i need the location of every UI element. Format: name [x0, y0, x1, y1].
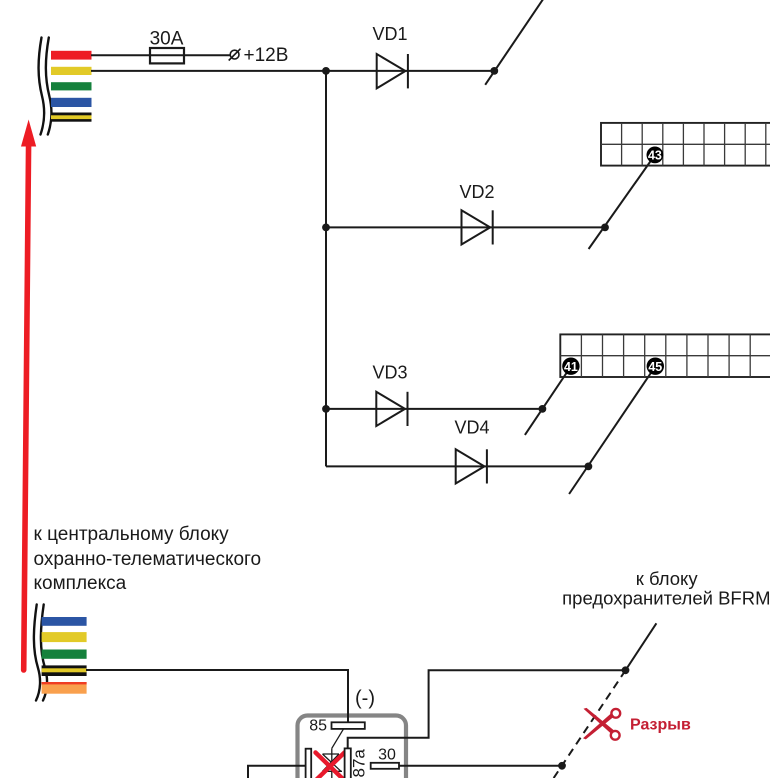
wire yellow feed to VD1 [91, 70, 494, 72]
connector X1 sheath (top harness) [39, 38, 52, 135]
node VD1 out [490, 67, 498, 75]
svg-text:41: 41 [564, 360, 578, 374]
dashed cut wire [553, 670, 626, 778]
wire to fuse [91, 54, 230, 56]
svg-text:VD3: VD3 [372, 363, 407, 383]
pin line to pad 43 [589, 155, 655, 249]
diode VD2 [462, 210, 493, 244]
bus vertical wire [325, 71, 327, 467]
red arrow [21, 120, 36, 671]
junction node bus-VD3 [322, 405, 330, 413]
pad 43 [647, 147, 664, 164]
wire stub black-yellow [51, 113, 92, 122]
svg-text:VD4: VD4 [454, 418, 489, 438]
svg-text:Разрыв: Разрыв [630, 717, 691, 734]
wire stub blue [51, 98, 92, 107]
red cross over coil [316, 753, 345, 778]
wire stub green [51, 82, 92, 90]
svg-text:30А: 30А [150, 29, 184, 50]
junction node VD2 out [601, 224, 609, 232]
svg-text:+12В: +12В [244, 45, 289, 66]
svg-text:к центральному блоку: к центральному блоку [34, 524, 230, 545]
wire VD3 branch [326, 408, 542, 410]
wire stub blue [42, 617, 87, 626]
wire harness to relay pin 85 [86, 670, 348, 723]
wire VD2 branch [326, 226, 605, 228]
junction node VD4 out [585, 463, 593, 471]
svg-text:(-): (-) [355, 688, 375, 710]
svg-text:85: 85 [309, 718, 327, 735]
wire to BFRM [626, 623, 657, 670]
junction node VD3 out [539, 405, 547, 413]
wire stub black-yellow [42, 665, 87, 676]
label to central unit [34, 524, 262, 594]
relay coil lead [323, 729, 344, 778]
wire stub yellow [51, 67, 92, 75]
svg-text:87а: 87а [350, 749, 369, 778]
node BFRM branch [622, 666, 630, 674]
label to BFRM fuse box [562, 568, 770, 609]
relay K1 body [298, 716, 407, 778]
svg-text:30: 30 [378, 747, 396, 764]
scissors cut symbol [583, 708, 614, 740]
wire stub green [42, 650, 87, 659]
connector X2 sheath (bottom harness) [34, 605, 47, 701]
relay pin 85 terminal [332, 722, 365, 729]
relay contact 87a [345, 748, 351, 778]
node bus top [322, 67, 330, 75]
junction node bus-VD2 [322, 224, 330, 232]
svg-text:предохранителей BFRM: предохранителей BFRM [562, 588, 770, 609]
wire 87a to BFRM node [348, 670, 626, 748]
wire stub yellow [42, 632, 87, 642]
svg-text:43: 43 [648, 148, 662, 162]
wire pin 30 to cut node [399, 765, 562, 767]
svg-text:VD1: VD1 [372, 24, 407, 44]
wire into relay contact left [248, 766, 306, 778]
svg-text:45: 45 [648, 360, 662, 374]
pin line to pad 45 [569, 366, 655, 494]
connector grid A [601, 123, 770, 166]
pin line to pad 41 [525, 366, 571, 435]
svg-text:комплекса: комплекса [34, 573, 127, 594]
diode VD1 [377, 54, 408, 88]
diode VD3 [376, 392, 407, 426]
wire stub orange [42, 682, 87, 694]
svg-text:к блоку: к блоку [636, 568, 699, 589]
wire VD4 branch [326, 465, 588, 467]
wire stub red [51, 51, 92, 60]
connector grid B [560, 334, 770, 377]
svg-text:охранно-телематического: охранно-телематического [34, 549, 262, 570]
fuse 30A [150, 48, 184, 63]
diode VD4 [456, 449, 487, 483]
node on cut wire [558, 762, 566, 770]
relay contact left [306, 749, 312, 778]
pad 45 [647, 358, 664, 375]
svg-text:VD2: VD2 [459, 182, 494, 202]
relay pin 30 terminal [371, 763, 399, 769]
pin line to top edge [485, 0, 543, 85]
+12V tap symbol [229, 49, 241, 61]
pad 41 [562, 358, 579, 375]
